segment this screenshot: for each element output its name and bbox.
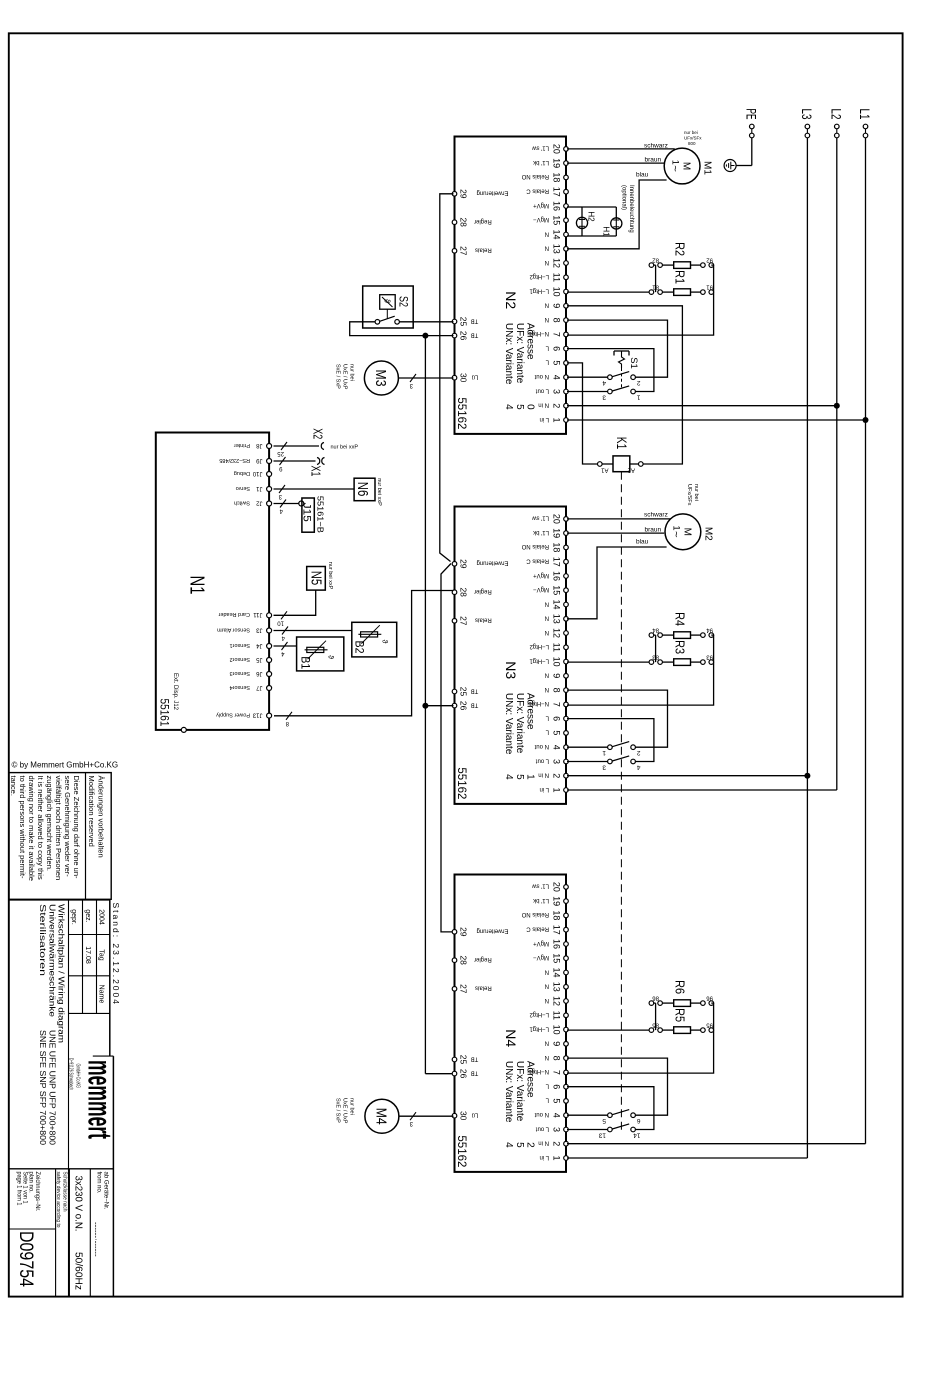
svg-text:UFx/SFx: UFx/SFx xyxy=(686,484,692,506)
svg-text:D09754: D09754 xyxy=(15,1231,36,1287)
svg-text:27: 27 xyxy=(458,984,468,994)
controller N2 55162 block outline xyxy=(455,137,567,434)
svg-text:25: 25 xyxy=(458,317,468,327)
svg-text:30: 30 xyxy=(458,1111,468,1121)
svg-text:gez.: gez. xyxy=(84,909,91,922)
svg-text:19: 19 xyxy=(552,896,562,906)
modification table xyxy=(9,773,111,900)
svg-text:UFx: Variante: UFx: Variante xyxy=(514,693,525,754)
wire resistor top bus to N-Htg1 xyxy=(567,1003,714,1073)
svg-text:Relais: Relais xyxy=(475,617,492,623)
earth symbol (PE connection) xyxy=(724,160,736,172)
svg-text:nur bei: nur bei xyxy=(693,484,699,501)
svg-text:M4: M4 xyxy=(373,1108,390,1125)
svg-text:25: 25 xyxy=(277,450,284,456)
svg-text:Servo: Servo xyxy=(236,485,250,491)
svg-text:N: N xyxy=(545,1054,549,1060)
svg-text:6: 6 xyxy=(552,346,562,351)
svg-text:12: 12 xyxy=(552,628,562,638)
svg-text:93: 93 xyxy=(706,654,713,660)
N2 terminals 25-30 xyxy=(452,192,457,197)
svg-text:Zeichnungs−Nr.: Zeichnungs−Nr. xyxy=(34,1172,40,1212)
svg-text:N: N xyxy=(545,686,549,692)
svg-text:N: N xyxy=(545,259,549,265)
svg-text:to third persons without permi: to third persons without permit- xyxy=(18,776,27,879)
svg-text:Relais C: Relais C xyxy=(526,926,549,932)
svg-text:page 1 from 1: page 1 from 1 xyxy=(16,1172,22,1207)
svg-text:15: 15 xyxy=(552,585,562,595)
svg-text:25: 25 xyxy=(458,1055,468,1065)
svg-text:Name: Name xyxy=(98,985,105,1004)
svg-text:6: 6 xyxy=(552,1084,562,1089)
svg-text:13: 13 xyxy=(552,614,562,624)
svg-text:Tag: Tag xyxy=(98,949,105,960)
svg-text:30: 30 xyxy=(458,373,468,383)
svg-text:TB: TB xyxy=(471,1055,479,1061)
svg-text:L3: L3 xyxy=(799,109,815,120)
wire K1 A1 to terminal 5 xyxy=(567,363,597,464)
approval table xyxy=(96,900,98,1014)
svg-text:2004: 2004 xyxy=(98,909,105,925)
svg-text:MgV+: MgV+ xyxy=(533,202,549,208)
svg-text:Regler: Regler xyxy=(474,218,492,224)
svg-text:9: 9 xyxy=(552,673,562,678)
resistor R6 xyxy=(649,1002,656,1004)
svg-text:13: 13 xyxy=(552,244,562,254)
svg-text:17: 17 xyxy=(552,557,562,567)
svg-text:5: 5 xyxy=(514,1142,525,1148)
wire contact top1 to N terminal 8 xyxy=(567,1058,668,1115)
N3 terminals 1-20 xyxy=(564,788,569,793)
svg-text:N: N xyxy=(545,230,549,236)
svg-text:TB: TB xyxy=(471,1069,479,1075)
svg-text:Relais: Relais xyxy=(475,985,492,991)
temperature sensor B2 xyxy=(352,622,397,657)
S2 actuator link xyxy=(386,309,388,319)
svg-text:L1: L1 xyxy=(857,109,873,120)
svg-text:18: 18 xyxy=(552,172,562,182)
svg-text:Relais NO: Relais NO xyxy=(521,173,549,179)
wire contact top1 to N terminal 8 xyxy=(567,690,668,747)
svg-text:91: 91 xyxy=(706,284,713,290)
svg-text:L in: L in xyxy=(540,1154,549,1160)
svg-text:4: 4 xyxy=(552,1113,562,1118)
svg-text:R2: R2 xyxy=(673,242,688,256)
svg-text:29: 29 xyxy=(458,189,468,199)
svg-text:1: 1 xyxy=(552,787,562,792)
svg-text:86: 86 xyxy=(652,995,659,1001)
wire resistor bottom bus xyxy=(655,265,657,292)
svg-text:schwarz: schwarz xyxy=(644,512,668,519)
switch contact pair xyxy=(567,746,608,748)
svg-text:N out: N out xyxy=(534,373,549,379)
wire J2 to J15 xyxy=(274,503,300,505)
svg-text:UFx: Variante: UFx: Variante xyxy=(514,323,525,384)
K1 actuation dashed link xyxy=(620,472,622,1133)
svg-text:28: 28 xyxy=(458,587,468,597)
svg-text:M2: M2 xyxy=(702,527,713,541)
switch S1 actuator xyxy=(614,350,629,352)
svg-text:memmert: memmert xyxy=(82,1060,119,1139)
wire N3-28 to N1 J13 power supply xyxy=(274,591,454,716)
svg-text:800: 800 xyxy=(688,141,696,146)
M4 connector pin 3 xyxy=(410,1112,416,1120)
wire PE drop to earth symbol xyxy=(736,165,752,167)
temperature sensor B1 xyxy=(297,637,344,671)
svg-text:2: 2 xyxy=(637,379,641,386)
svg-text:J3: J3 xyxy=(256,626,263,632)
wire J9 to X1 connector xyxy=(274,460,316,462)
svg-text:L1' sw: L1' sw xyxy=(532,145,549,151)
S2 thermostat symbol xyxy=(380,295,396,310)
wire N3-26 stub to TB bus xyxy=(425,705,453,707)
svg-text:29: 29 xyxy=(458,559,468,569)
svg-text:It is neither allowed to copy: It is neither allowed to copy this xyxy=(36,776,45,880)
svg-text:0: 0 xyxy=(525,404,536,410)
svg-text:Card Reader: Card Reader xyxy=(218,611,250,617)
svg-text:17: 17 xyxy=(552,925,562,935)
svg-text:3: 3 xyxy=(552,759,562,764)
svg-text:10: 10 xyxy=(552,657,562,667)
svg-text:nur bei xxP: nur bei xxP xyxy=(331,444,359,450)
svg-text:R5: R5 xyxy=(673,1008,688,1022)
wire terminal 25 through S2 to terminal 26 xyxy=(399,321,453,323)
N1 connector J12 Ext. Disp. xyxy=(181,727,186,732)
svg-text:J7: J7 xyxy=(256,684,263,690)
svg-text:L in: L in xyxy=(540,416,549,422)
junction TB bus xyxy=(422,333,428,339)
controller N3 55162 block outline xyxy=(455,507,567,804)
svg-text:14: 14 xyxy=(552,967,562,977)
svg-text:28: 28 xyxy=(458,955,468,965)
svg-text:6: 6 xyxy=(552,716,562,721)
svg-text:X2: X2 xyxy=(311,428,326,439)
svg-text:ab Geräte−Nr.: ab Geräte−Nr. xyxy=(103,1172,109,1210)
svg-text:16: 16 xyxy=(552,201,562,211)
svg-text:UNx: Variante: UNx: Variante xyxy=(503,323,514,385)
lamp H2 xyxy=(581,207,583,236)
wire terminal 1 riser to L1 xyxy=(567,419,866,421)
svg-text:Erweiterung: Erweiterung xyxy=(476,190,508,196)
svg-text:MgV−: MgV− xyxy=(533,586,549,592)
svg-text:N4: N4 xyxy=(503,1029,519,1047)
svg-text:4: 4 xyxy=(503,404,514,410)
svg-text:N: N xyxy=(545,316,549,322)
svg-text:GmbH+Co.KG: GmbH+Co.KG xyxy=(75,1064,81,1089)
svg-text:N5: N5 xyxy=(308,571,325,586)
svg-text:1: 1 xyxy=(637,394,641,401)
svg-text:17: 17 xyxy=(552,187,562,197)
wire contact top2 to L terminal 6 xyxy=(567,719,654,762)
svg-text:Regler: Regler xyxy=(474,588,492,594)
svg-text:6: 6 xyxy=(637,1117,641,1124)
lamp H1 xyxy=(615,207,617,236)
svg-text:15: 15 xyxy=(552,953,562,963)
N1 connectors J8-J13 xyxy=(267,444,272,449)
svg-text:2: 2 xyxy=(525,1142,536,1148)
svg-text:S1: S1 xyxy=(628,357,639,369)
svg-text:blau: blau xyxy=(636,172,649,179)
svg-text:10: 10 xyxy=(552,287,562,297)
svg-text:UxE / UxP: UxE / UxP xyxy=(342,364,348,390)
svg-text:J13: J13 xyxy=(252,711,262,717)
svg-text:26: 26 xyxy=(458,331,468,341)
svg-text:4: 4 xyxy=(602,379,606,386)
S2 contacts xyxy=(395,320,400,325)
wire N3 terminal 2 riser to L3 xyxy=(567,775,807,777)
svg-text:2: 2 xyxy=(552,403,562,408)
svg-text:N: N xyxy=(545,672,549,678)
svg-text:5: 5 xyxy=(552,360,562,365)
svg-text:19: 19 xyxy=(552,158,562,168)
wire J3 to sensor B2 xyxy=(274,630,352,632)
svg-text:Änderungen vorbehalten: Änderungen vorbehalten xyxy=(97,776,106,858)
svg-text:H2: H2 xyxy=(587,211,596,222)
svg-text:A2: A2 xyxy=(627,467,635,473)
wire terminal 2 riser to L2 xyxy=(567,405,837,407)
resistor R1 xyxy=(567,291,649,293)
memmert logo cell xyxy=(93,1055,114,1057)
svg-text:SNE SFE SNP SFP 700+800: SNE SFE SNP SFP 700+800 xyxy=(38,1030,47,1146)
svg-text:N in: N in xyxy=(538,772,549,778)
svg-text:J9: J9 xyxy=(256,457,263,463)
svg-text:R4: R4 xyxy=(673,612,688,626)
svg-text:3: 3 xyxy=(552,1127,562,1132)
svg-text:7: 7 xyxy=(552,332,562,337)
motor M4 xyxy=(365,1099,399,1133)
svg-text:UxE / UxP: UxE / UxP xyxy=(342,1098,348,1124)
svg-text:MgV−: MgV− xyxy=(533,954,549,960)
svg-text:14: 14 xyxy=(552,599,562,609)
svg-text:K1: K1 xyxy=(614,437,630,450)
resistor R3 xyxy=(567,661,649,663)
wire N4 terminal 1 riser to L3 end xyxy=(567,1157,807,1159)
svg-text:Sensor Alarm: Sensor Alarm xyxy=(217,626,250,632)
svg-text:TB: TB xyxy=(471,687,479,693)
svg-text:L1' bk: L1' bk xyxy=(532,897,549,903)
svg-text:M: M xyxy=(681,528,692,536)
svg-text:J2: J2 xyxy=(256,499,263,505)
wire resistor top bus to N-Htg1 xyxy=(567,265,714,335)
wire resistor bottom bus xyxy=(655,635,657,662)
drawing number cell xyxy=(9,1228,56,1230)
svg-text:Erweiterung: Erweiterung xyxy=(476,928,508,934)
junction on L3 xyxy=(804,773,810,779)
junction on L2 xyxy=(834,403,840,409)
svg-text:Sensor2: Sensor2 xyxy=(230,656,251,662)
svg-text:ϑ: ϑ xyxy=(327,655,334,659)
svg-text:M1: M1 xyxy=(702,161,713,175)
svg-text:L1' bk: L1' bk xyxy=(532,159,549,165)
svg-text:A1: A1 xyxy=(600,467,608,473)
wire contact top2 to L terminal 6 xyxy=(567,1087,654,1130)
svg-text:vielfältigt noch dritten Perso: vielfältigt noch dritten Personen xyxy=(54,776,63,881)
svg-text:16: 16 xyxy=(552,939,562,949)
svg-text:10: 10 xyxy=(552,1025,562,1035)
svg-text:L1' sw: L1' sw xyxy=(532,515,549,521)
svg-text:braun: braun xyxy=(645,157,662,164)
svg-text:MgV−: MgV− xyxy=(533,216,549,222)
resistor R5 xyxy=(567,1029,649,1031)
svg-text:1: 1 xyxy=(602,749,606,756)
svg-text:16: 16 xyxy=(552,571,562,581)
wire N4 terminal 2 riser to L1 end xyxy=(567,1143,866,1145)
svg-text:N: N xyxy=(545,968,549,974)
svg-text:3: 3 xyxy=(602,394,606,401)
svg-text:N: N xyxy=(545,983,549,989)
svg-text:nur bei: nur bei xyxy=(684,130,698,135)
wire J4 to sensor B1 xyxy=(274,645,297,647)
svg-text:55162: 55162 xyxy=(455,1135,469,1167)
svg-text:4: 4 xyxy=(552,375,562,380)
junction on L1 xyxy=(863,417,869,423)
svg-text:Lü: Lü xyxy=(472,1112,479,1118)
svg-text:9: 9 xyxy=(552,1041,562,1046)
svg-text:2: 2 xyxy=(552,1141,562,1146)
svg-text:Switch: Switch xyxy=(234,499,250,505)
svg-text:1: 1 xyxy=(552,1155,562,1160)
svg-text:Printer: Printer xyxy=(234,442,250,448)
svg-text:------·------: ------·------ xyxy=(92,1222,101,1257)
svg-text:4: 4 xyxy=(637,764,641,771)
svg-text:N6: N6 xyxy=(354,482,371,497)
svg-text:from no.: from no. xyxy=(96,1172,102,1194)
svg-text:L in: L in xyxy=(540,786,549,792)
svg-text:8: 8 xyxy=(552,318,562,323)
svg-text:L−Htg1: L−Htg1 xyxy=(529,287,549,293)
connector J15 55161-B xyxy=(299,501,304,506)
svg-text:11: 11 xyxy=(552,1011,562,1020)
svg-text:18: 18 xyxy=(552,910,562,920)
svg-text:11: 11 xyxy=(552,643,562,652)
svg-text:13: 13 xyxy=(598,1132,606,1139)
svg-text:10: 10 xyxy=(277,619,284,625)
svg-text:12: 12 xyxy=(552,996,562,1006)
svg-text:2: 2 xyxy=(637,749,641,756)
svg-text:55161: 55161 xyxy=(158,699,172,727)
wire M4 to terminal 30 xyxy=(399,1115,454,1117)
svg-text:schwarz: schwarz xyxy=(644,143,668,150)
wire contact top2 to L terminal 6 xyxy=(567,349,654,392)
M3 connector pin 3 xyxy=(410,374,416,382)
wire K1 A2 to terminal 9 xyxy=(567,306,682,464)
svg-text:8: 8 xyxy=(552,688,562,693)
wire J1 to N6 xyxy=(274,488,355,490)
wire M3 to terminal 30 xyxy=(398,377,453,379)
svg-text:Wirkschaltplan / Wiring diagra: Wirkschaltplan / Wiring diagram xyxy=(57,904,66,1043)
svg-text:nur bei xxP: nur bei xxP xyxy=(376,478,382,506)
svg-text:L out: L out xyxy=(536,757,549,763)
svg-text:M: M xyxy=(681,162,692,170)
svg-text:SxE / SxP: SxE / SxP xyxy=(335,1098,341,1123)
svg-text:X1: X1 xyxy=(309,466,324,477)
svg-text:11: 11 xyxy=(552,273,562,282)
svg-text:1: 1 xyxy=(552,417,562,422)
connector X1 pair xyxy=(317,458,320,465)
motor M1 xyxy=(664,148,700,184)
svg-text:84: 84 xyxy=(652,627,659,633)
svg-text:28: 28 xyxy=(458,217,468,227)
svg-text:20: 20 xyxy=(552,514,562,524)
svg-text:Sensor3: Sensor3 xyxy=(230,670,251,676)
svg-text:29: 29 xyxy=(458,927,468,937)
svg-text:drawing nor to make it availab: drawing nor to make it available xyxy=(27,776,36,881)
svg-text:D−91126 Schwabach: D−91126 Schwabach xyxy=(68,1058,74,1090)
wire MgV+ riser to lamps xyxy=(567,206,582,208)
svg-text:Debug: Debug xyxy=(234,470,250,476)
svg-text:13: 13 xyxy=(552,982,562,992)
svg-text:L out: L out xyxy=(536,387,549,393)
svg-text:15: 15 xyxy=(552,215,562,225)
svg-text:55161−B: 55161−B xyxy=(316,496,326,533)
svg-text:Stand: 23.12.2004: Stand: 23.12.2004 xyxy=(111,903,121,1006)
svg-text:96: 96 xyxy=(706,995,713,1001)
svg-text:N: N xyxy=(545,615,549,621)
option module N5 xyxy=(307,567,326,591)
svg-text:nur bei: nur bei xyxy=(349,1098,355,1115)
motor M3 xyxy=(364,361,398,395)
svg-text:N: N xyxy=(545,600,549,606)
svg-text:20: 20 xyxy=(552,144,562,154)
svg-text:nur bei xxP: nur bei xxP xyxy=(327,562,333,590)
svg-text:gepr.: gepr. xyxy=(70,909,77,925)
svg-text:blau: blau xyxy=(636,539,649,546)
svg-text:PE: PE xyxy=(743,109,759,120)
svg-text:50/60Hz: 50/60Hz xyxy=(73,1252,85,1290)
svg-text:MgV+: MgV+ xyxy=(533,940,549,946)
svg-text:L out: L out xyxy=(536,1125,549,1131)
svg-text:S2: S2 xyxy=(397,296,411,307)
svg-text:5: 5 xyxy=(602,1117,606,1124)
svg-text:R6: R6 xyxy=(673,980,688,994)
svg-text:zugänglich gemacht werden.: zugänglich gemacht werden. xyxy=(45,776,54,871)
svg-text:1∼: 1∼ xyxy=(671,526,681,539)
option module N6 xyxy=(354,478,375,501)
svg-text:5: 5 xyxy=(514,404,525,410)
svg-text:27: 27 xyxy=(458,246,468,256)
svg-text:Sensor4: Sensor4 xyxy=(230,684,251,690)
wire N riser to lamps xyxy=(567,235,582,237)
svg-text:Schutzklasse nach: Schutzklasse nach xyxy=(62,1172,68,1212)
svg-text:82: 82 xyxy=(652,257,659,263)
wire resistor top bus to N-Htg1 xyxy=(567,635,714,705)
svg-text:L−Htg1: L−Htg1 xyxy=(529,657,549,663)
svg-text:Adresse: Adresse xyxy=(525,693,536,730)
switch contact pair xyxy=(567,376,608,378)
wire J11 to N5 xyxy=(274,590,316,615)
svg-text:7: 7 xyxy=(552,1070,562,1075)
svg-text:J6: J6 xyxy=(256,670,263,676)
svg-text:14: 14 xyxy=(633,1132,641,1139)
svg-text:Sensor1: Sensor1 xyxy=(230,642,251,648)
svg-text:Relais: Relais xyxy=(475,247,492,253)
svg-text:J5: J5 xyxy=(256,656,263,662)
svg-text:L−Htg1: L−Htg1 xyxy=(529,1025,549,1031)
svg-text:7: 7 xyxy=(552,702,562,707)
N4 terminals 25-30 xyxy=(452,930,457,935)
svg-text:4: 4 xyxy=(503,1142,514,1148)
svg-text:sere Genehmigung weder ver-: sere Genehmigung weder ver- xyxy=(63,776,72,878)
svg-text:55162: 55162 xyxy=(455,397,469,429)
svg-text:MgV+: MgV+ xyxy=(533,572,549,578)
svg-text:8: 8 xyxy=(552,1056,562,1061)
svg-text:L−Htg2: L−Htg2 xyxy=(529,273,549,279)
svg-text:Regler: Regler xyxy=(474,956,492,962)
svg-text:N out: N out xyxy=(534,743,549,749)
svg-text:92: 92 xyxy=(706,257,713,263)
svg-text:3x230 V o.N.: 3x230 V o.N. xyxy=(73,1176,85,1232)
controller N1 55161 block outline xyxy=(156,433,269,730)
